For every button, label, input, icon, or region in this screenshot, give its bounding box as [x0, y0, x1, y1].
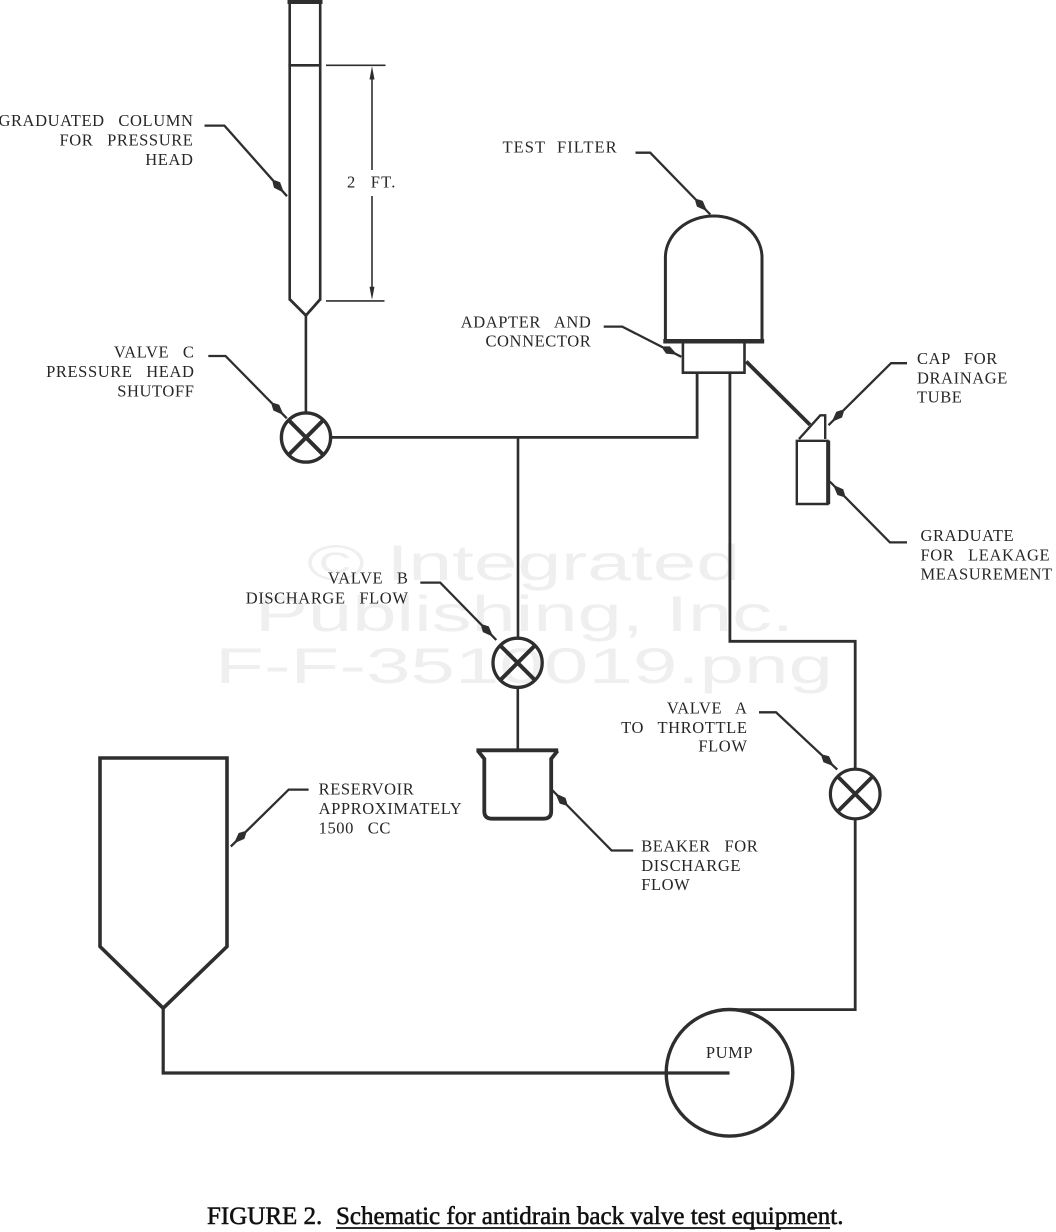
caption underline	[336, 1227, 830, 1229]
wire valve A to pump top	[722, 819, 855, 1010]
valve C circle	[281, 413, 330, 462]
adapter bottom tube right line to valve A elbow	[730, 374, 855, 770]
label beaker	[641, 837, 758, 895]
graduate for leakage	[797, 441, 828, 505]
svg-text:TEST FILTER: TEST FILTER	[503, 138, 618, 157]
svg-text:VALVE A: VALVE A	[667, 699, 748, 718]
dimension vertical line with arrows	[370, 66, 375, 300]
svg-text:FLOW: FLOW	[641, 875, 690, 894]
leader cap	[829, 363, 908, 425]
cap for drainage tube	[799, 415, 825, 439]
svg-text:DISCHARGE: DISCHARGE	[641, 856, 741, 875]
leader reservoir	[231, 790, 309, 847]
valve B circle	[493, 638, 542, 687]
label valve A	[621, 699, 747, 756]
wire valve C to filter tube elbow	[330, 374, 697, 438]
svg-text:BEAKER FOR: BEAKER FOR	[641, 837, 758, 856]
wire valve B to beaker	[516, 688, 519, 750]
svg-text:PRESSURE HEAD: PRESSURE HEAD	[46, 362, 194, 381]
svg-text:CAP FOR: CAP FOR	[917, 349, 998, 368]
leader beaker	[552, 790, 633, 851]
beaker for discharge flow	[476, 750, 558, 818]
svg-text:FOR PRESSURE: FOR PRESSURE	[59, 131, 193, 150]
svg-text:TUBE: TUBE	[917, 388, 962, 407]
leader valve C	[208, 356, 286, 418]
svg-text:VALVE B: VALVE B	[328, 568, 409, 587]
svg-text:GRADUATE: GRADUATE	[921, 526, 1015, 545]
svg-text:2 FT.: 2 FT.	[347, 172, 397, 191]
svg-text:RESERVOIR: RESERVOIR	[319, 779, 415, 798]
wire reservoir to pump	[163, 1008, 729, 1073]
svg-text:ADAPTER AND: ADAPTER AND	[461, 312, 592, 331]
label adapter and connector	[461, 312, 592, 350]
label cap for drainage tube	[917, 349, 1008, 407]
leader graduate	[830, 482, 907, 543]
leader valve B	[420, 583, 496, 640]
label graduated column	[0, 111, 194, 169]
svg-text:DISCHARGE FLOW: DISCHARGE FLOW	[246, 588, 409, 607]
svg-text:DRAINAGE: DRAINAGE	[917, 368, 1008, 387]
figure caption	[207, 1203, 843, 1230]
svg-text:TO THROTTLE: TO THROTTLE	[621, 718, 747, 737]
label valve B	[246, 568, 409, 607]
valve A circle	[830, 769, 880, 819]
svg-text:GRADUATED COLUMN: GRADUATED COLUMN	[0, 111, 194, 130]
test filter dome	[663, 216, 764, 342]
svg-text:1500 CC: 1500 CC	[319, 819, 391, 838]
label valve C	[46, 342, 194, 400]
svg-text:SHUTOFF: SHUTOFF	[117, 381, 194, 400]
svg-text:Schematic for antidrain back v: Schematic for antidrain back valve test …	[336, 1203, 843, 1230]
svg-text:MEASUREMENT: MEASUREMENT	[921, 565, 1053, 584]
leader graduated column	[205, 126, 288, 197]
svg-text:PUMP: PUMP	[706, 1043, 753, 1062]
svg-text:APPROXIMATELY: APPROXIMATELY	[319, 799, 463, 818]
dimension 2 FT extension lines	[326, 65, 386, 301]
graduated column body	[288, 0, 323, 316]
label reservoir	[319, 779, 463, 837]
pump circle	[666, 1010, 793, 1137]
leader adapter	[604, 327, 682, 357]
leader test filter	[636, 153, 711, 215]
leader valve A	[759, 712, 837, 769]
adapter and connector box	[683, 344, 745, 373]
wire column to valve C	[305, 316, 308, 414]
reservoir tank	[100, 758, 227, 1008]
svg-text:FIGURE 2.: FIGURE 2.	[207, 1203, 322, 1230]
label graduate for leakage measurement	[921, 526, 1053, 584]
drainage tube diagonal	[746, 362, 810, 425]
svg-text:HEAD: HEAD	[145, 150, 193, 169]
svg-text:CONNECTOR: CONNECTOR	[485, 332, 591, 351]
svg-text:VALVE C: VALVE C	[114, 342, 195, 361]
wire branch down to valve B	[517, 437, 520, 638]
svg-text:FLOW: FLOW	[698, 737, 747, 756]
svg-text:FOR LEAKAGE: FOR LEAKAGE	[921, 545, 1051, 564]
